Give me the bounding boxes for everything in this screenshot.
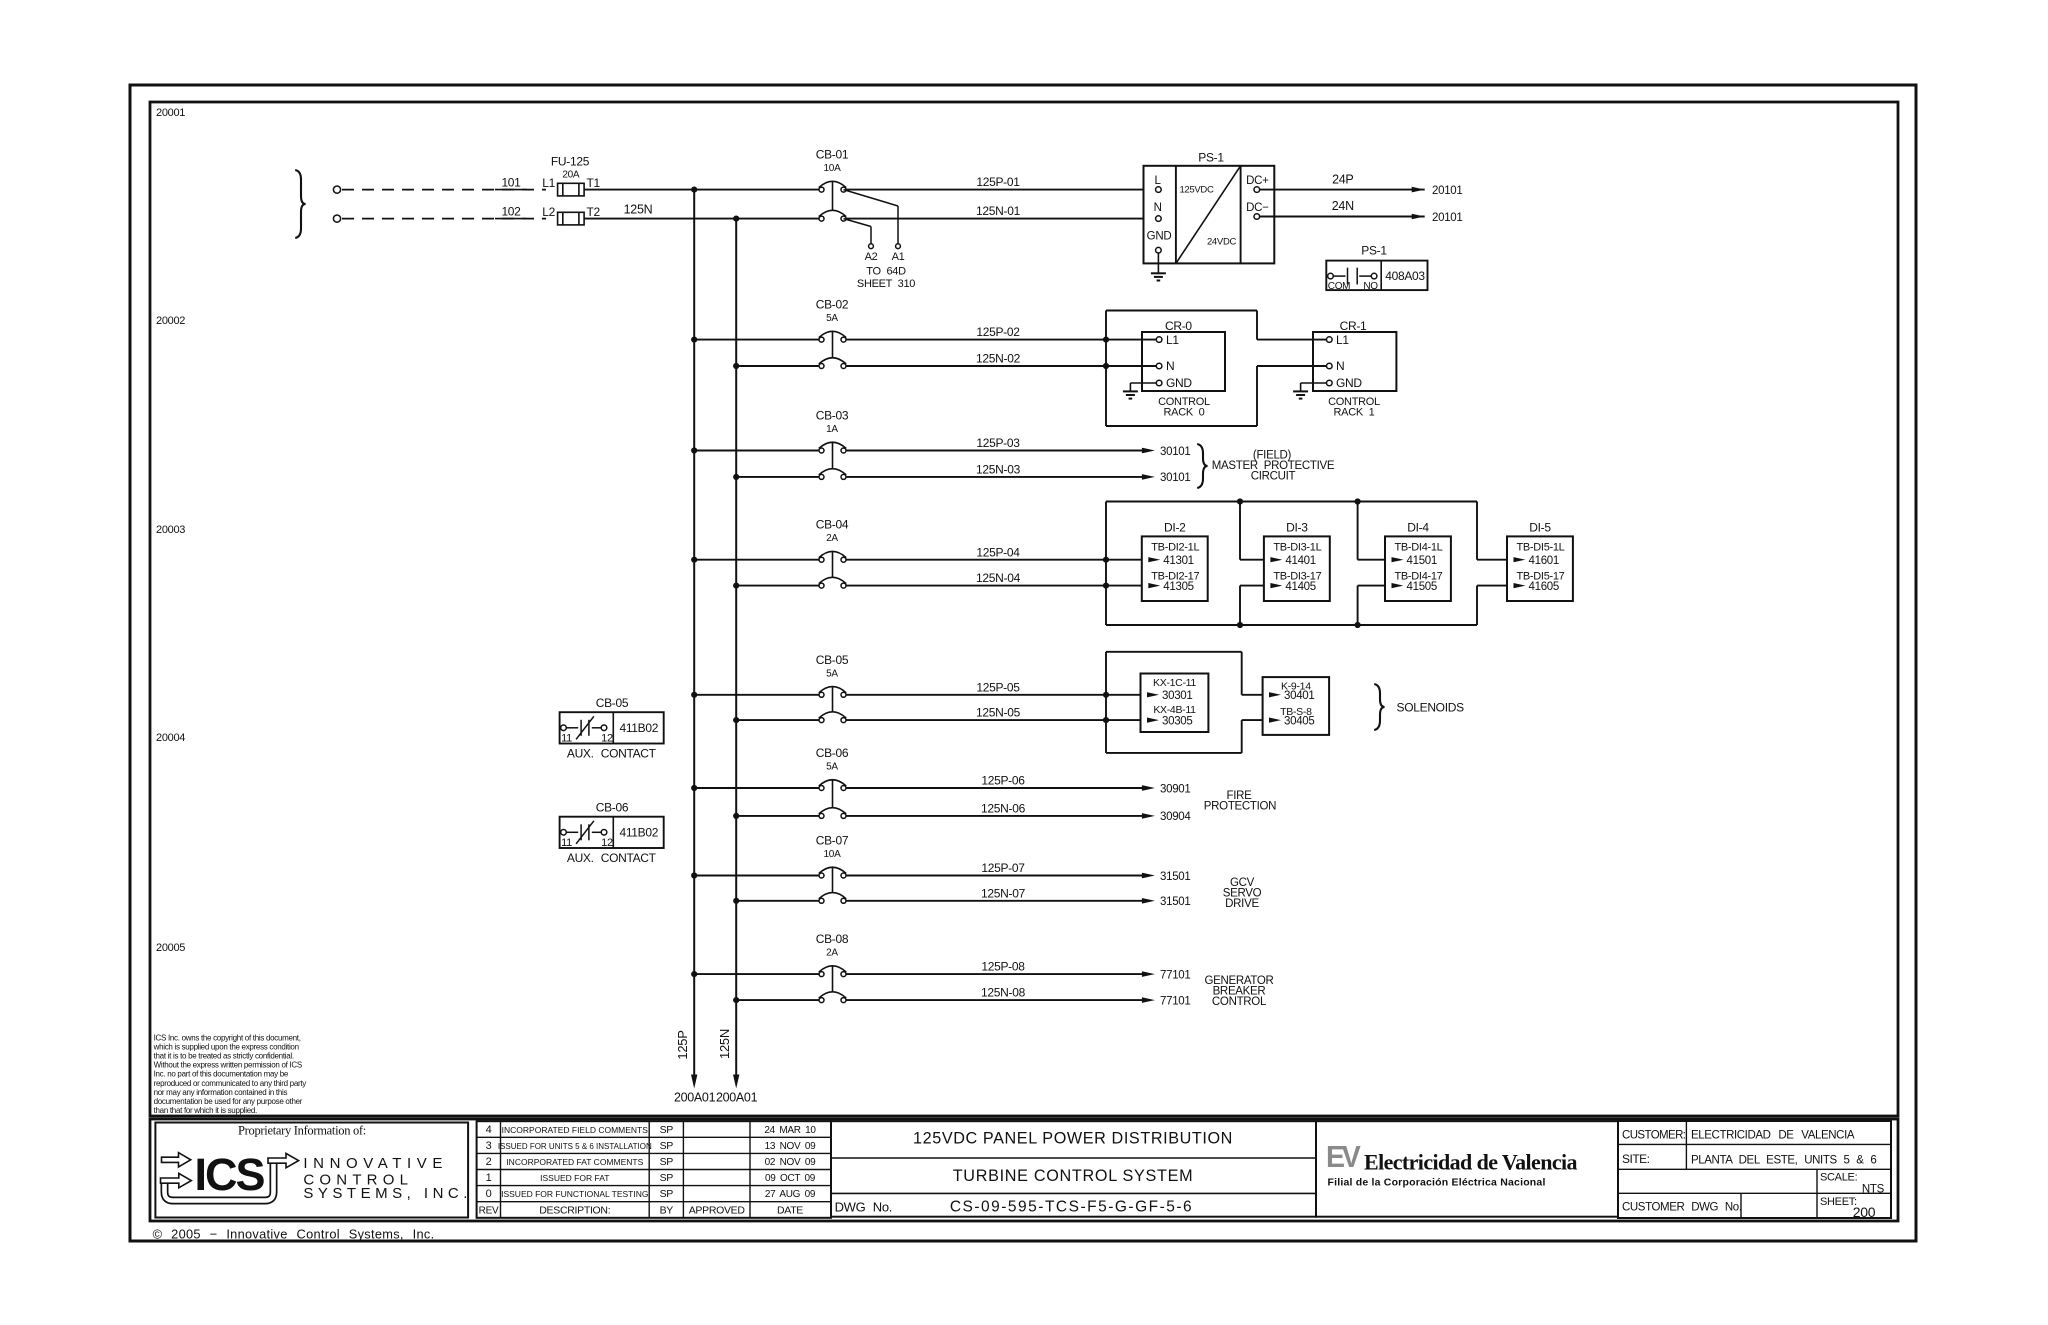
- svg-text:125P-08: 125P-08: [981, 960, 1025, 974]
- wire 125N-03: [846, 476, 1142, 478]
- svg-text:CS-09-595-TCS-F5-G-GF-5-6: CS-09-595-TCS-F5-G-GF-5-6: [950, 1199, 1193, 1216]
- EV logo cell box: [1316, 1121, 1618, 1217]
- incoming supply brace: [295, 170, 305, 238]
- ICS proprietary cell box: [155, 1123, 468, 1218]
- junction dot KX loop P: [1103, 692, 1109, 698]
- svg-text:Without the express written pe: Without the express written permission o…: [154, 1061, 302, 1070]
- svg-text:DI-3: DI-3: [1286, 521, 1308, 535]
- svg-text:ISSUED FOR FUNCTIONAL TESTING: ISSUED FOR FUNCTIONAL TESTING: [501, 1189, 648, 1199]
- wire 125N-07: [846, 900, 1142, 902]
- svg-text:30901: 30901: [1160, 783, 1190, 795]
- svg-text:RACK 0: RACK 0: [1164, 407, 1205, 419]
- svg-text:2A: 2A: [826, 948, 838, 959]
- svg-text:L: L: [1155, 175, 1162, 187]
- svg-text:SP: SP: [660, 1188, 674, 1200]
- svg-text:DC+: DC+: [1246, 175, 1269, 187]
- circuit breaker CB-01: [819, 187, 824, 192]
- wire 125P-07: [846, 875, 1142, 877]
- svg-text:TURBINE CONTROL SYSTEM: TURBINE CONTROL SYSTEM: [953, 1167, 1194, 1185]
- svg-text:24VDC: 24VDC: [1207, 236, 1237, 247]
- wire bus to CB-06 P: [694, 787, 819, 789]
- svg-text:CIRCUIT: CIRCUIT: [1251, 470, 1296, 482]
- bus 125P vertical: [693, 190, 695, 1076]
- svg-text:20004: 20004: [156, 732, 185, 744]
- svg-text:ICS: ICS: [194, 1149, 264, 1200]
- svg-text:125P: 125P: [675, 1030, 690, 1059]
- svg-text:11: 11: [561, 837, 572, 849]
- svg-text:SP: SP: [660, 1156, 674, 1168]
- circuit breaker CB-04: [819, 557, 824, 562]
- svg-text:12: 12: [601, 733, 613, 745]
- junction dot CB-06 125P: [691, 785, 697, 791]
- svg-text:CONTROL: CONTROL: [1212, 996, 1267, 1008]
- svg-text:TB-DI2-1L: TB-DI2-1L: [1151, 542, 1199, 554]
- svg-text:24N: 24N: [1332, 199, 1354, 213]
- CR-1 terminal L1: [1327, 337, 1333, 343]
- svg-text:ISSUED FOR UNITS 5 & 6 INSTALL: ISSUED FOR UNITS 5 & 6 INSTALLATION: [498, 1142, 652, 1151]
- svg-text:KX-4B-11: KX-4B-11: [1153, 704, 1196, 716]
- svg-text:125P-05: 125P-05: [976, 680, 1020, 694]
- svg-text:PS-1: PS-1: [1361, 244, 1387, 258]
- wire 125P-02: [846, 339, 1156, 341]
- svg-text:125P-01: 125P-01: [976, 175, 1020, 189]
- svg-text:TB-DI5-1L: TB-DI5-1L: [1516, 542, 1564, 554]
- svg-text:SHEET 310: SHEET 310: [857, 278, 915, 290]
- CR feed loop wiring: [1105, 311, 1107, 427]
- svg-text:PS-1: PS-1: [1198, 151, 1224, 165]
- svg-text:CB-02: CB-02: [816, 298, 849, 312]
- DI feed loop wiring: [1105, 502, 1107, 626]
- svg-text:BY: BY: [660, 1204, 674, 1216]
- svg-text:CUSTOMER:: CUSTOMER:: [1622, 1129, 1686, 1141]
- junction dot DI-3 top: [1237, 498, 1243, 504]
- svg-text:EV: EV: [1326, 1140, 1361, 1174]
- wire bus to CB-05 N: [736, 719, 819, 721]
- svg-text:SP: SP: [660, 1172, 674, 1184]
- wire 125N-08: [846, 999, 1142, 1001]
- circuit breaker CB-06: [819, 786, 824, 791]
- wire bus to CB-05 P: [694, 694, 819, 696]
- svg-text:INCORPORATED FAT COMMENTS: INCORPORATED FAT COMMENTS: [506, 1157, 643, 1167]
- CR-1 ground wire: [1301, 382, 1327, 384]
- svg-text:CR-1: CR-1: [1340, 319, 1367, 333]
- svg-text:L1: L1: [542, 176, 555, 190]
- svg-text:1A: 1A: [826, 424, 838, 435]
- svg-text:200: 200: [1853, 1204, 1876, 1220]
- svg-text:PLANTA DEL ESTE, UNITS 5 & 6: PLANTA DEL ESTE, UNITS 5 & 6: [1691, 1155, 1876, 1167]
- junction dot CB-08 125N: [733, 997, 739, 1003]
- junction dot CR loop P: [1103, 337, 1109, 343]
- svg-text:AUX. CONTACT: AUX. CONTACT: [567, 746, 657, 760]
- svg-text:41405: 41405: [1285, 581, 1315, 593]
- svg-text:30305: 30305: [1162, 715, 1192, 727]
- customer info grid: [1618, 1143, 1891, 1145]
- svg-text:125P-03: 125P-03: [976, 436, 1020, 450]
- svg-text:20003: 20003: [156, 524, 185, 536]
- junction dot CB-06 125N: [733, 813, 739, 819]
- svg-text:L1: L1: [1336, 333, 1349, 347]
- wire 101 dashed: [342, 189, 546, 191]
- wire 125P-03: [846, 450, 1142, 452]
- CR-1 terminal GND: [1327, 380, 1333, 386]
- svg-text:REV: REV: [479, 1205, 499, 1216]
- svg-text:TO 64D: TO 64D: [866, 266, 906, 278]
- svg-text:INCORPORATED FIELD COMMENTS: INCORPORATED FIELD COMMENTS: [502, 1125, 649, 1135]
- junction dot DI-4 top: [1355, 498, 1361, 504]
- svg-text:which is supplied upon the exp: which is supplied upon the express condi…: [153, 1043, 299, 1052]
- svg-text:A1: A1: [892, 251, 905, 263]
- svg-text:than that for which it is supp: than that for which it is supplied.: [154, 1106, 257, 1115]
- svg-text:20002: 20002: [156, 315, 185, 327]
- svg-text:L2: L2: [542, 205, 555, 219]
- svg-text:5A: 5A: [826, 313, 838, 324]
- svg-text:DATE: DATE: [777, 1204, 803, 1216]
- CR-0 ground wire: [1130, 382, 1156, 384]
- svg-text:A2: A2: [865, 251, 878, 263]
- junction dot CB-02 125P: [691, 337, 697, 343]
- ground symbol PS-1: [1151, 272, 1166, 274]
- junction dot KX loop N: [1103, 717, 1109, 723]
- CR-0 terminal N: [1156, 363, 1162, 369]
- svg-text:GND: GND: [1166, 376, 1192, 390]
- junction dot CB-02 125N: [733, 363, 739, 369]
- svg-text:T2: T2: [587, 205, 601, 219]
- svg-text:DC−: DC−: [1246, 202, 1269, 214]
- junction dot 125P tap: [691, 187, 697, 193]
- svg-text:5A: 5A: [826, 668, 838, 679]
- svg-text:09 OCT 09: 09 OCT 09: [765, 1173, 816, 1184]
- svg-text:125P-02: 125P-02: [976, 325, 1020, 339]
- svg-text:INNOVATIVE: INNOVATIVE: [303, 1155, 448, 1172]
- svg-text:PROTECTION: PROTECTION: [1204, 800, 1276, 812]
- svg-text:408A03: 408A03: [1385, 269, 1425, 283]
- svg-text:SITE:: SITE:: [1622, 1152, 1650, 1166]
- outer page border: [130, 85, 1916, 1241]
- wire 24N output: [1260, 216, 1425, 218]
- wire bus to CB-08 N: [736, 999, 819, 1001]
- svg-text:125N-01: 125N-01: [976, 204, 1021, 218]
- svg-text:CB-08: CB-08: [816, 932, 849, 946]
- wire fuse T2 to CB-01: [584, 218, 819, 220]
- svg-text:AUX. CONTACT: AUX. CONTACT: [567, 851, 657, 865]
- wire bus to CB-03 N: [736, 476, 819, 478]
- wire bus to CB-07 N: [736, 900, 819, 902]
- svg-text:30401: 30401: [1284, 690, 1314, 702]
- wire bus to CB-03 P: [694, 450, 819, 452]
- svg-text:DI-5: DI-5: [1529, 521, 1551, 535]
- wire bus to CB-02 N: [736, 365, 819, 367]
- svg-text:125N-07: 125N-07: [981, 886, 1026, 900]
- wire 24P output: [1260, 189, 1425, 191]
- junction dot CB-04 125N: [733, 583, 739, 589]
- wire 125P-05: [846, 694, 1141, 696]
- control rack CR-0 box: [1142, 332, 1225, 391]
- junction dot CB-07 125N: [733, 898, 739, 904]
- svg-text:125N-03: 125N-03: [976, 463, 1021, 477]
- svg-text:Inc. no part of this documenta: Inc. no part of this documentation may b…: [154, 1070, 289, 1079]
- svg-text:20001: 20001: [156, 107, 185, 119]
- svg-text:41401: 41401: [1285, 555, 1315, 567]
- svg-text:CB-07: CB-07: [816, 834, 849, 848]
- svg-text:DESCRIPTION:: DESCRIPTION:: [539, 1204, 610, 1216]
- DI-3 feed wires: [1239, 502, 1241, 560]
- svg-text:© 2005 − Innovative Control Sy: © 2005 − Innovative Control Systems, Inc…: [153, 1226, 435, 1241]
- bus 125P down arrow: [691, 1075, 697, 1089]
- svg-text:41601: 41601: [1529, 555, 1559, 567]
- svg-text:2: 2: [486, 1156, 492, 1168]
- svg-text:27 AUG 09: 27 AUG 09: [765, 1189, 816, 1200]
- junction dot DI loop N: [1103, 583, 1109, 589]
- bus 125N down arrow: [733, 1075, 739, 1089]
- terminal 102 circle: [333, 215, 340, 222]
- control rack CR-1 box: [1313, 332, 1396, 391]
- svg-text:CB-06: CB-06: [816, 746, 849, 760]
- solenoid feed loop wiring: [1105, 652, 1107, 753]
- svg-text:that it is to be treated as st: that it is to be treated as strictly con…: [154, 1052, 294, 1061]
- terminal block DI-2 box: [1142, 536, 1208, 601]
- svg-text:CB-05: CB-05: [596, 696, 629, 710]
- wire 125P-01: [846, 189, 1144, 191]
- svg-text:Filial de la Corporación Eléct: Filial de la Corporación Eléctrica Nacio…: [1328, 1177, 1546, 1189]
- circuit breaker CB-02: [819, 337, 824, 342]
- svg-text:SP: SP: [660, 1124, 674, 1136]
- svg-text:CB-01: CB-01: [816, 148, 849, 162]
- svg-text:13 NOV 09: 13 NOV 09: [765, 1141, 817, 1152]
- svg-text:DI-4: DI-4: [1407, 521, 1429, 535]
- ICS logo arrows and loop: [165, 1164, 274, 1201]
- PS-1 alarm contact symbol: [1328, 273, 1334, 279]
- svg-text:24P: 24P: [1332, 173, 1353, 187]
- svg-text:101: 101: [501, 175, 521, 189]
- svg-text:12: 12: [601, 837, 613, 849]
- CR-1 terminal N: [1327, 363, 1333, 369]
- svg-text:CB-04: CB-04: [816, 518, 849, 532]
- CB-05 aux NC contact symbol: [561, 725, 567, 731]
- svg-text:ICS Inc. owns the copyright of: ICS Inc. owns the copyright of this docu…: [154, 1034, 301, 1043]
- wire bus to CB-08 P: [694, 973, 819, 975]
- circuit breaker CB-07: [819, 873, 824, 878]
- drawing title cell box: [831, 1121, 1316, 1217]
- svg-text:GND: GND: [1147, 231, 1172, 243]
- svg-text:125N-06: 125N-06: [981, 802, 1026, 816]
- wire bus to CB-07 P: [694, 875, 819, 877]
- svg-text:ISSUED FOR FAT: ISSUED FOR FAT: [540, 1173, 609, 1183]
- junction dot CR loop N: [1103, 363, 1109, 369]
- CB-05 aux contact box 411B02: [560, 712, 664, 743]
- svg-text:30301: 30301: [1162, 690, 1192, 702]
- junction dot DI-4 bottom: [1355, 622, 1361, 628]
- svg-text:SP: SP: [660, 1140, 674, 1152]
- svg-text:41605: 41605: [1529, 581, 1559, 593]
- svg-text:125N-04: 125N-04: [976, 571, 1021, 585]
- junction dot CB-05 125P: [691, 692, 697, 698]
- title block outer box: [150, 1119, 1898, 1221]
- terminal block DI-3 box: [1264, 536, 1330, 601]
- wire 125N-06: [846, 815, 1142, 817]
- junction dot CB-05 125N: [733, 717, 739, 723]
- CB-06 aux contact box 411B02: [560, 817, 664, 848]
- svg-text:125P-07: 125P-07: [981, 861, 1025, 875]
- circuit breaker CB-05: [819, 692, 824, 697]
- terminal 101 circle: [333, 186, 340, 193]
- ground symbol CR-1: [1293, 390, 1308, 392]
- PS-1 ground wire: [1157, 253, 1159, 273]
- svg-text:411B02: 411B02: [619, 826, 658, 840]
- svg-text:20A: 20A: [562, 170, 580, 181]
- svg-text:GND: GND: [1336, 376, 1362, 390]
- svg-text:20101: 20101: [1432, 212, 1462, 224]
- svg-text:125N: 125N: [717, 1029, 732, 1059]
- svg-text:N: N: [1154, 202, 1162, 214]
- wire 125N-02: [846, 365, 1156, 367]
- wire bus to CB-04 N: [736, 585, 819, 587]
- terminal block DI-4 box: [1385, 536, 1451, 601]
- CB-01 auxiliary contact wiring A2: [844, 219, 872, 227]
- svg-text:125P-06: 125P-06: [981, 774, 1025, 788]
- svg-text:Proprietary Information of:: Proprietary Information of:: [238, 1124, 366, 1138]
- junction dot CB-07 125P: [691, 872, 697, 878]
- svg-text:KX-1C-11: KX-1C-11: [1153, 677, 1196, 689]
- svg-text:TB-DI3-1L: TB-DI3-1L: [1273, 542, 1321, 554]
- svg-text:411B02: 411B02: [619, 721, 658, 735]
- DI-4 feed wires: [1357, 502, 1359, 560]
- svg-text:nor may any information contai: nor may any information contained in thi…: [154, 1088, 288, 1097]
- wire 125P-06: [846, 787, 1142, 789]
- svg-text:125N-02: 125N-02: [976, 352, 1021, 366]
- terminal block DI-5 box: [1507, 536, 1573, 601]
- CB-01 auxiliary contact wiring A1: [844, 190, 899, 206]
- wire 125N-05: [846, 719, 1141, 721]
- svg-text:125VDC PANEL POWER DISTRIBUTIO: 125VDC PANEL POWER DISTRIBUTION: [913, 1130, 1233, 1148]
- svg-text:0: 0: [486, 1188, 492, 1200]
- svg-text:24 MAR 10: 24 MAR 10: [764, 1125, 816, 1136]
- svg-text:CR-0: CR-0: [1165, 319, 1192, 333]
- svg-text:41505: 41505: [1407, 581, 1437, 593]
- svg-text:TB-DI4-1L: TB-DI4-1L: [1394, 542, 1442, 554]
- wire bus to CB-06 N: [736, 815, 819, 817]
- svg-text:T1: T1: [587, 176, 601, 190]
- junction dot DI-3 bottom: [1237, 622, 1243, 628]
- svg-text:02 NOV 09: 02 NOV 09: [765, 1157, 817, 1168]
- terminal block K box: [1263, 677, 1330, 735]
- svg-text:30405: 30405: [1284, 715, 1314, 727]
- svg-text:20101: 20101: [1432, 185, 1462, 197]
- svg-text:ELECTRICIDAD DE VALENCIA: ELECTRICIDAD DE VALENCIA: [1691, 1129, 1855, 1141]
- svg-text:125VDC: 125VDC: [1179, 184, 1214, 195]
- svg-text:documentation be used for any: documentation be used for any purpose ot…: [154, 1097, 303, 1106]
- svg-text:3: 3: [486, 1140, 492, 1152]
- svg-text:reproduced or communicated to: reproduced or communicated to any third …: [154, 1079, 307, 1088]
- revision table box: [477, 1121, 831, 1218]
- circuit breaker CB-03: [819, 448, 824, 453]
- wire 125N-04: [846, 585, 1142, 587]
- junction dot 125N tap: [733, 216, 739, 222]
- svg-text:102: 102: [501, 204, 521, 218]
- svg-text:2A: 2A: [826, 533, 838, 544]
- svg-text:DI-2: DI-2: [1164, 521, 1186, 535]
- terminal block KX box: [1141, 674, 1209, 733]
- svg-text:31501: 31501: [1160, 896, 1190, 908]
- svg-text:COM: COM: [1328, 281, 1350, 292]
- wire 125N-01: [846, 218, 1144, 220]
- svg-text:SOLENOIDS: SOLENOIDS: [1397, 700, 1465, 714]
- PS-1 diagonal: [1176, 166, 1241, 264]
- wire fuse T1 to CB-01: [584, 189, 819, 191]
- svg-text:DWG No.: DWG No.: [835, 1200, 893, 1215]
- svg-text:10A: 10A: [824, 163, 842, 174]
- PS-1 alarm contact box 408A03: [1326, 261, 1427, 291]
- svg-text:20005: 20005: [156, 942, 185, 954]
- svg-text:CB-03: CB-03: [816, 409, 849, 423]
- wire bus to CB-02 P: [694, 339, 819, 341]
- junction dot CB-08 125P: [691, 971, 697, 977]
- svg-text:FU-125: FU-125: [551, 155, 590, 169]
- revision table grid: [477, 1136, 831, 1138]
- customer info block box: [1618, 1121, 1891, 1218]
- svg-text:125N: 125N: [624, 203, 653, 217]
- svg-text:APPROVED: APPROVED: [689, 1204, 746, 1216]
- svg-text:L1: L1: [1166, 333, 1179, 347]
- circuit breaker CB-08: [819, 972, 824, 977]
- svg-text:10A: 10A: [824, 849, 842, 860]
- brace master protective circuit: [1197, 444, 1207, 488]
- svg-text:4: 4: [486, 1124, 492, 1136]
- svg-text:41305: 41305: [1163, 581, 1193, 593]
- svg-text:125N-08: 125N-08: [981, 986, 1026, 1000]
- svg-text:SHEET:: SHEET:: [1820, 1196, 1857, 1208]
- svg-text:DRIVE: DRIVE: [1225, 898, 1259, 910]
- svg-text:200A01: 200A01: [716, 1091, 758, 1105]
- bus 125N vertical: [735, 219, 737, 1076]
- svg-text:Electricidad de Valencia: Electricidad de Valencia: [1364, 1150, 1578, 1175]
- svg-text:30101: 30101: [1160, 472, 1190, 484]
- svg-text:41501: 41501: [1407, 555, 1437, 567]
- svg-text:N: N: [1336, 359, 1344, 373]
- inner drawing border: [150, 102, 1898, 1116]
- svg-text:SCALE:: SCALE:: [1820, 1171, 1858, 1183]
- svg-text:RACK 1: RACK 1: [1334, 407, 1375, 419]
- svg-text:NO: NO: [1363, 281, 1378, 292]
- wire 125P-04: [846, 559, 1142, 561]
- svg-text:77101: 77101: [1160, 995, 1190, 1007]
- svg-text:200A01: 200A01: [674, 1091, 716, 1105]
- svg-text:30101: 30101: [1160, 446, 1190, 458]
- ground symbol CR-0: [1123, 390, 1138, 392]
- svg-text:31501: 31501: [1160, 871, 1190, 883]
- CB-06 aux NC contact symbol: [561, 830, 567, 836]
- junction dot CB-04 125P: [691, 557, 697, 563]
- svg-text:77101: 77101: [1160, 969, 1190, 981]
- CR-0 terminal L1: [1156, 337, 1162, 343]
- junction dot DI loop P: [1103, 557, 1109, 563]
- wire bus to CB-04 P: [694, 559, 819, 561]
- svg-text:CUSTOMER DWG No.: CUSTOMER DWG No.: [1622, 1202, 1742, 1214]
- svg-text:SYSTEMS, INC.: SYSTEMS, INC.: [303, 1185, 472, 1202]
- svg-text:41301: 41301: [1163, 555, 1193, 567]
- wire 125P-08: [846, 973, 1142, 975]
- svg-text:11: 11: [561, 733, 572, 745]
- svg-text:125P-04: 125P-04: [976, 545, 1020, 559]
- svg-text:30904: 30904: [1160, 811, 1191, 823]
- svg-text:NTS: NTS: [1862, 1183, 1885, 1195]
- svg-text:CB-06: CB-06: [596, 801, 629, 815]
- svg-text:1: 1: [486, 1172, 492, 1184]
- svg-text:N: N: [1166, 359, 1174, 373]
- svg-text:CB-05: CB-05: [816, 653, 849, 667]
- svg-text:125N-05: 125N-05: [976, 706, 1021, 720]
- power supply PS-1 box: [1144, 166, 1275, 264]
- svg-text:5A: 5A: [826, 762, 838, 773]
